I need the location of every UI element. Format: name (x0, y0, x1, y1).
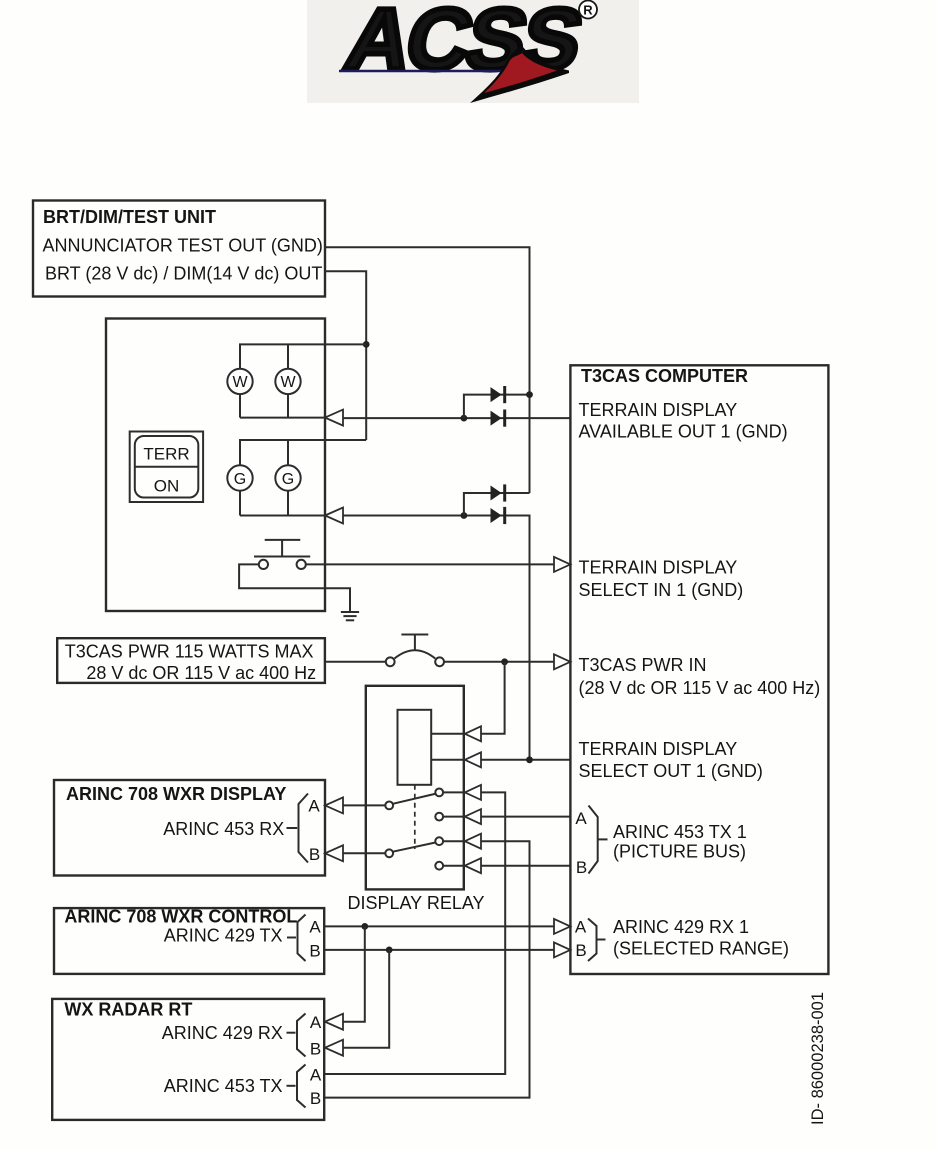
pushbutton switch actuator head (265, 539, 301, 541)
ACSS logo red arrow (470, 46, 569, 104)
svg-text:T3CAS COMPUTER: T3CAS COMPUTER (581, 366, 748, 386)
T3CAS COMPUTER box (570, 365, 828, 974)
svg-text:ON: ON (154, 477, 180, 496)
svg-text:A: A (309, 918, 321, 937)
svg-text:ID- 86000238-001: ID- 86000238-001 (809, 992, 827, 1125)
arrow into T3CAS pwr in (554, 654, 570, 669)
svg-text:ARINC 453 TX 1: ARINC 453 TX 1 (613, 822, 747, 842)
brace t3cas 429 rx (588, 919, 597, 962)
svg-text:W: W (280, 374, 296, 391)
svg-text:TERR: TERR (143, 445, 189, 464)
svg-text:(28 V dc OR 115 V ac 400 Hz): (28 V dc OR 115 V ac 400 Hz) (579, 678, 821, 698)
wire pwr dot down to relay coil (481, 662, 505, 734)
brace wxr display A/B (287, 827, 298, 829)
svg-text:B: B (310, 1089, 321, 1108)
svg-text:A: A (575, 809, 587, 828)
junction dot wxr control B (386, 947, 393, 954)
brace wx radar 453 tx A/B (287, 1085, 296, 1087)
T3CAS PWR source box (57, 638, 325, 683)
lamp G2 (275, 465, 300, 490)
wire terrain display available out 1 main line (343, 417, 570, 419)
wire brt/dim out net (325, 271, 366, 440)
wire annunciator test out (gnd) net (325, 247, 530, 493)
arrow into T3CAS 429 rx B (554, 942, 570, 957)
TERR ON inner rounded rect (135, 436, 199, 498)
wire contact 1 to wx radar 453 tx A (324, 792, 505, 1074)
svg-text:ARINC 708 WXR DISPLAY: ARINC 708 WXR DISPLAY (66, 784, 286, 804)
svg-text:B: B (576, 858, 587, 877)
arrow into wxr display B (325, 845, 343, 861)
wire W lamp top rail (240, 344, 366, 417)
svg-text:TERRAIN DISPLAY: TERRAIN DISPLAY (579, 400, 738, 420)
arrow out of relay contact 2 (465, 809, 481, 824)
wire W lamp 2 stub (287, 344, 289, 417)
ground symbol (341, 611, 359, 613)
junction dot select out (526, 756, 533, 763)
svg-text:T3CAS PWR 115 WATTS MAX: T3CAS PWR 115 WATTS MAX (65, 642, 314, 662)
wire wxr control A down to wx radar 429 rx A (343, 926, 365, 1021)
relay mechanical link (dashed) (414, 785, 416, 849)
annunciator unit box (106, 319, 325, 612)
junction dot wxr control A (361, 923, 368, 930)
wire coil bottom lead (431, 759, 465, 761)
svg-text:B: B (575, 941, 586, 960)
wire G lamp 2 stub (287, 440, 289, 516)
wire breaker to T3CAS pwr in (444, 661, 554, 663)
wire contact 2 stub (443, 816, 465, 818)
relay contact 2 (435, 813, 443, 821)
relay contact 1 (435, 789, 443, 797)
ARINC 708 WXR CONTROL box (54, 908, 324, 974)
junction dot diode pair 1 cathode (526, 391, 533, 398)
relay blade 2 (393, 842, 436, 851)
wire coil top lead (431, 733, 465, 735)
lamp W1 (227, 369, 252, 394)
BRT/DIM/TEST UNIT box (33, 201, 325, 297)
svg-text:DISPLAY RELAY: DISPLAY RELAY (347, 893, 484, 913)
junction dot brt/dim to W lamps (363, 341, 370, 348)
svg-text:28 V dc OR 115 V ac 400 Hz: 28 V dc OR 115 V ac 400 Hz (86, 663, 316, 683)
pushbutton contact left (259, 560, 268, 569)
wire pushbutton to ground (239, 564, 350, 611)
svg-text:TERRAIN DISPLAY: TERRAIN DISPLAY (579, 558, 738, 578)
TERR ON pushbutton annunciator outer square (130, 432, 203, 503)
arrow into relay coil bottom (465, 752, 481, 767)
pushbutton contact right (297, 560, 306, 569)
diode CR3 top (491, 486, 502, 501)
ACSS logo underline (339, 70, 550, 73)
wire contact 1 stub (443, 791, 465, 793)
circuit breaker arc (395, 650, 436, 658)
svg-text:ARINC 429 RX: ARINC 429 RX (162, 1023, 283, 1043)
svg-text:AVAILABLE OUT 1 (GND): AVAILABLE OUT 1 (GND) (579, 422, 788, 442)
brace wxr control A/B (287, 937, 296, 939)
svg-text:G: G (234, 471, 246, 488)
svg-text:W: W (232, 374, 248, 391)
svg-text:(PICTURE BUS): (PICTURE BUS) (613, 842, 746, 862)
svg-text:ARINC 429 TX: ARINC 429 TX (164, 926, 283, 946)
brace t3cas 453 tx (589, 806, 598, 874)
wire PWR box to breaker (325, 661, 386, 663)
circuit breaker handle (414, 635, 416, 651)
svg-text:(SELECTED RANGE): (SELECTED RANGE) (613, 939, 789, 959)
wire diode pair 2 top branch (464, 493, 530, 516)
ARINC 708 WXR DISPLAY box (54, 780, 325, 876)
svg-text:A: A (575, 918, 587, 937)
svg-text:TERRAIN DISPLAY: TERRAIN DISPLAY (579, 739, 738, 759)
svg-text:SELECT OUT 1 (GND): SELECT OUT 1 (GND) (579, 761, 763, 781)
arrow into annunciator (terrain display available) (325, 410, 343, 426)
wire common 1 to wxr display A (343, 804, 385, 806)
svg-text:ANNUNCIATOR TEST OUT (GND): ANNUNCIATOR TEST OUT (GND) (43, 236, 323, 256)
lamp G1 (227, 465, 252, 490)
svg-text:B: B (309, 942, 320, 961)
wire contact 4 stub (443, 865, 465, 867)
relay common pole 2 (385, 849, 393, 857)
svg-text:B: B (309, 845, 320, 864)
svg-text:B: B (310, 1040, 321, 1059)
svg-text:WX RADAR RT: WX RADAR RT (64, 1000, 192, 1020)
diode CR2 on main line (491, 411, 502, 426)
svg-text:ARINC 429 RX 1: ARINC 429 RX 1 (613, 917, 749, 937)
arrow out of relay contact 4 (465, 858, 481, 873)
WX RADAR RT box (52, 999, 324, 1120)
svg-text:ARINC 708 WXR CONTROL: ARINC 708 WXR CONTROL (64, 907, 297, 927)
junction dot diode pair 2 (461, 512, 468, 519)
wire contact 3 stub (443, 840, 465, 842)
ACSS logo registered trademark (579, 1, 597, 19)
wire W lamp bottom rail (240, 417, 325, 419)
relay common pole 1 (385, 802, 393, 810)
wire G lamp top rail (240, 440, 366, 516)
junction dot pwr to relay coil (501, 658, 508, 665)
diode CR1 top (491, 387, 502, 402)
wire diode pair 1 top branch (464, 395, 530, 419)
svg-text:BRT/DIM/TEST UNIT: BRT/DIM/TEST UNIT (43, 207, 216, 227)
relay coil K1 (398, 710, 432, 785)
wire G lamp bottom rail (240, 515, 325, 517)
arrow into annunciator (terrain display select out) (325, 508, 343, 524)
circuit breaker contact left (386, 657, 395, 666)
ACSS logo background (307, 0, 639, 103)
wire contact 4 to T3CAS 453 tx B (481, 865, 570, 867)
svg-text:ARINC 453 RX: ARINC 453 RX (163, 819, 284, 839)
relay contact 4 (435, 862, 443, 870)
TERR ON divider (135, 466, 199, 468)
svg-text:A: A (308, 797, 320, 816)
wire contact 2 to T3CAS 453 tx A (481, 816, 570, 818)
circuit breaker contact right (435, 657, 444, 666)
arrow into wx radar 429 rx A (325, 1014, 343, 1030)
wire pushbutton to T3CAS select in (306, 563, 554, 565)
svg-text:R: R (583, 3, 593, 18)
relay contact 3 (435, 837, 443, 845)
wire wxr control A to T3CAS 429 rx A (324, 925, 554, 927)
arrow into wxr display A (325, 797, 343, 813)
display relay box (366, 686, 464, 890)
svg-text:T3CAS PWR IN: T3CAS PWR IN (579, 655, 707, 675)
pushbutton moving contact bar (254, 556, 310, 558)
lamp W2 (275, 369, 300, 394)
brace wx radar 429 rx A/B (287, 1032, 296, 1034)
wire wxr control B to T3CAS 429 rx B (324, 949, 554, 951)
wire G line to select out vertical (343, 516, 530, 761)
svg-text:G: G (282, 471, 294, 488)
arrow out of relay contact 1 (465, 785, 481, 800)
relay blade 1 (393, 794, 436, 804)
svg-text:A: A (310, 1013, 322, 1032)
diode CR4 on G line (491, 508, 502, 523)
junction dot diode pair 1 (461, 415, 468, 422)
wire terrain display select out 1 (481, 759, 570, 761)
svg-text:SELECT IN 1 (GND): SELECT IN 1 (GND) (579, 580, 744, 600)
wire common 2 to wxr display B (343, 852, 385, 854)
svg-text:ARINC 453 TX: ARINC 453 TX (164, 1076, 283, 1096)
svg-text:BRT (28 V dc) / DIM(14 V dc) O: BRT (28 V dc) / DIM(14 V dc) OUT (45, 264, 322, 284)
svg-text:A: A (310, 1066, 322, 1085)
arrow into T3CAS select in (554, 557, 570, 572)
wire contact 3 to wx radar 453 tx B (324, 841, 529, 1097)
arrow into T3CAS 429 rx A (554, 919, 570, 934)
wire wxr control B down to wx radar 429 rx B (343, 950, 389, 1048)
arrow into wx radar 429 rx B (325, 1040, 343, 1056)
arrow into relay coil top (465, 726, 481, 741)
arrow out of relay contact 3 (465, 834, 481, 849)
